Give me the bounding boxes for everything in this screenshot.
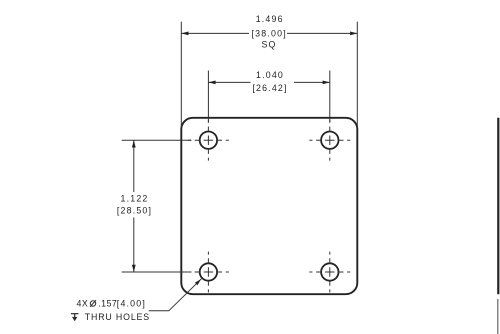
svg-text:4X: 4X [77, 299, 89, 309]
hole bottom-left [200, 263, 217, 280]
hole top-right [321, 132, 338, 149]
svg-text:1.040: 1.040 [256, 70, 284, 80]
side view left edge (cropped at right border) [497, 118, 499, 294]
centerline top-left hole horizontal [188, 139, 229, 141]
extension line left for 1.040 dim [207, 71, 209, 123]
centerline top-right hole vertical [329, 120, 331, 161]
extension line top for 1.122 dim [122, 139, 192, 141]
centerline bottom-right hole horizontal [309, 271, 350, 273]
arrow top of 1.122 dim [132, 140, 136, 147]
dimension line 1.040 left segment [208, 81, 250, 83]
arrow right of 1.496 dim [350, 32, 357, 36]
svg-text:.157: .157 [98, 299, 117, 309]
plate outline [181, 118, 357, 294]
arrow left of 1.040 dim [208, 81, 215, 85]
svg-text:1.496: 1.496 [256, 14, 284, 24]
arrow right of 1.040 dim [323, 81, 330, 85]
arrow left of 1.496 dim [181, 32, 188, 36]
hole bottom-right [321, 263, 338, 280]
extension line right for 1.496 dim [356, 22, 358, 128]
leader line from note to bottom-left hole [149, 279, 202, 311]
svg-text:SQ: SQ [261, 40, 276, 50]
svg-text:[4.00]: [4.00] [117, 299, 146, 309]
extension line left for 1.496 dim [180, 22, 182, 128]
svg-text:THRU HOLES: THRU HOLES [85, 312, 150, 322]
dimension line 1.122 bottom segment [133, 218, 135, 273]
dimension line 1.122 top segment [133, 140, 135, 192]
extension line right for 1.040 dim [329, 71, 331, 123]
centerline top-right hole horizontal [309, 139, 350, 141]
svg-text:[26.42]: [26.42] [252, 83, 287, 93]
svg-text:[28.50]: [28.50] [117, 205, 152, 215]
diameter symbol [90, 300, 96, 307]
dimension line 1.496 right segment [287, 32, 357, 34]
extension line bottom for 1.122 dim [122, 271, 192, 273]
arrow bottom of 1.122 dim [132, 265, 136, 272]
dimension line 1.496 left segment [181, 32, 249, 34]
centerline top-left hole vertical [207, 120, 209, 161]
depth symbol [71, 314, 79, 322]
dimension line 1.040 right segment [294, 81, 330, 83]
extension line below side view (cropped) [497, 299, 499, 334]
centerline bottom-right hole vertical [329, 252, 331, 293]
hole top-left [200, 132, 217, 149]
centerline bottom-left hole vertical [207, 252, 209, 293]
svg-text:[38.00]: [38.00] [252, 28, 287, 38]
svg-text:1.122: 1.122 [120, 194, 148, 204]
leader arrowhead at bottom-left hole [195, 279, 201, 285]
centerline bottom-left hole horizontal [188, 271, 229, 273]
